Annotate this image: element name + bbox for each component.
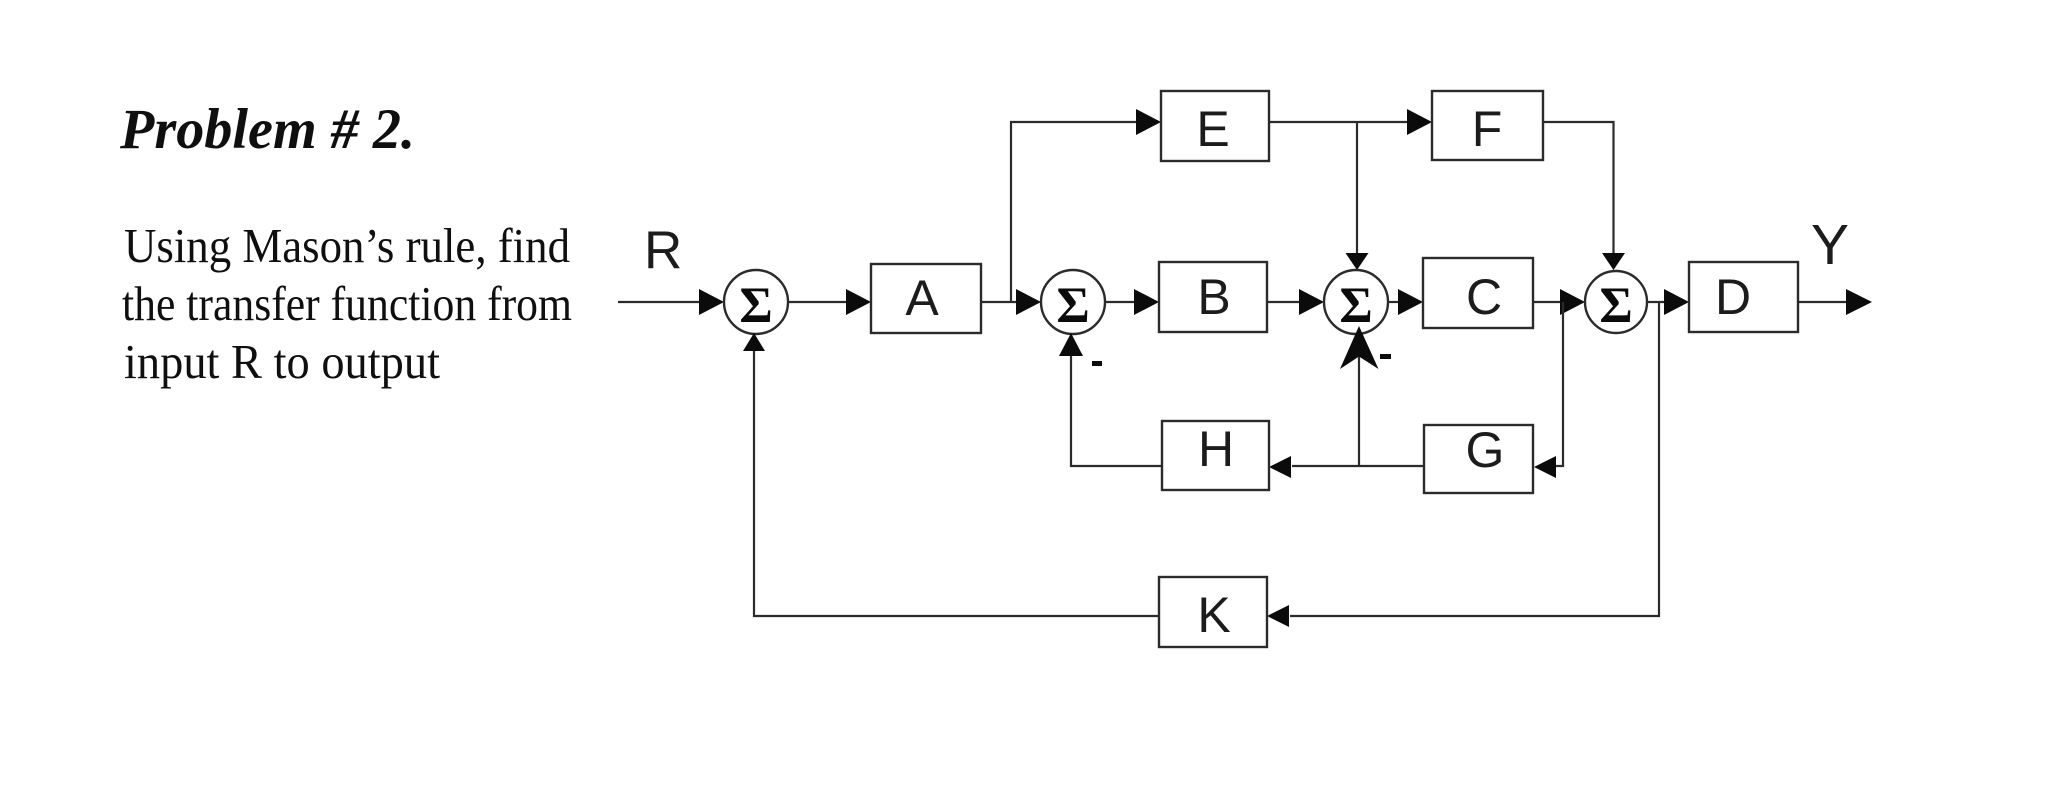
svg-text:F: F: [1472, 101, 1503, 157]
output arrowhead: [1846, 289, 1872, 315]
arrowhead into D: [1664, 289, 1689, 315]
wire E to F with junction to S3: [1269, 121, 1409, 123]
arrowhead into B: [1134, 289, 1159, 315]
arrowhead into F: [1407, 109, 1432, 135]
block D: [1689, 262, 1798, 332]
arrowhead into E: [1136, 109, 1161, 135]
svg-text:input R to output: input R to output: [124, 334, 440, 389]
summer S2: [1041, 270, 1105, 334]
wire D to output Y: [1798, 301, 1849, 303]
arrowhead down into S3 top: [1346, 253, 1369, 270]
wire S1 to A: [788, 301, 848, 303]
block C: [1423, 258, 1533, 328]
arrowhead into K right side: [1267, 605, 1289, 627]
summer S4: [1585, 271, 1647, 334]
wire F to S4 top: [1543, 122, 1614, 254]
svg-text:D: D: [1715, 269, 1751, 325]
block A: [871, 264, 981, 333]
wire B to S3: [1267, 301, 1301, 303]
block F: [1432, 91, 1543, 160]
wire S4 to D with branch node to K: [1647, 301, 1666, 303]
arrowhead into S2: [1016, 289, 1041, 315]
wire junction down from E-F line into S3 top: [1356, 122, 1358, 254]
svg-text:H: H: [1198, 421, 1234, 477]
minus sign at S2 lower input: [1092, 361, 1102, 366]
svg-text:Σ: Σ: [739, 278, 772, 334]
summer S3: [1324, 270, 1388, 334]
wire H output left and up into S2 bottom: [1071, 352, 1162, 466]
svg-text:R: R: [644, 221, 682, 280]
block G: [1424, 422, 1533, 493]
svg-text:the transfer function from: the transfer function from: [122, 276, 572, 331]
svg-text:K: K: [1197, 587, 1230, 643]
block H: [1162, 421, 1269, 490]
wire A to S2 with branch node: [981, 301, 1018, 303]
wire S3 to C: [1388, 301, 1400, 303]
svg-text:E: E: [1196, 101, 1229, 157]
wire C to S4 with branch node to G: [1533, 301, 1562, 303]
arrowhead into S3: [1299, 289, 1324, 315]
wire junction up from rail into S3 bottom: [1358, 356, 1360, 466]
arrowhead into S4: [1560, 289, 1585, 315]
block B: [1159, 262, 1267, 332]
block K: [1159, 577, 1267, 647]
wire R input: [618, 301, 701, 303]
svg-text:Using Mason’s rule, find: Using Mason’s rule, find: [124, 218, 570, 273]
arrowhead down into S4 top: [1602, 253, 1625, 270]
block E: [1161, 91, 1269, 161]
summer S1: [724, 270, 788, 334]
arrowhead into H right side: [1269, 456, 1291, 478]
svg-text:Σ: Σ: [1339, 278, 1372, 334]
wire branch up to E path: [1011, 122, 1138, 302]
svg-text:Problem # 2.: Problem # 2.: [119, 98, 415, 161]
svg-text:B: B: [1197, 269, 1230, 325]
wire S2 to B: [1105, 301, 1136, 303]
svg-text:Σ: Σ: [1599, 278, 1632, 334]
wire K output left and up into S1 bottom: [754, 350, 1159, 616]
svg-text:Y: Y: [1811, 213, 1849, 277]
arrowhead into G right side: [1534, 456, 1556, 478]
arrowhead up into S1 bottom: [743, 333, 765, 351]
big dart arrowhead up into S3 bottom: [1340, 326, 1379, 369]
arrowhead into A: [846, 289, 871, 315]
svg-text:C: C: [1466, 269, 1502, 325]
minus sign at S3 lower input: [1380, 354, 1391, 359]
wire G to H rail with junction up into S3: [1292, 465, 1424, 467]
svg-text:A: A: [905, 270, 939, 326]
arrowhead up into S2 bottom: [1059, 333, 1083, 356]
svg-text:Σ: Σ: [1056, 278, 1089, 334]
wire K feedback: node after S4 down and left to K: [1290, 302, 1659, 616]
svg-text:G: G: [1466, 422, 1505, 478]
arrowhead into C: [1398, 289, 1423, 315]
arrowhead into summer S1: [699, 289, 724, 315]
wire G feedback: node after C down to G: [1540, 302, 1563, 466]
